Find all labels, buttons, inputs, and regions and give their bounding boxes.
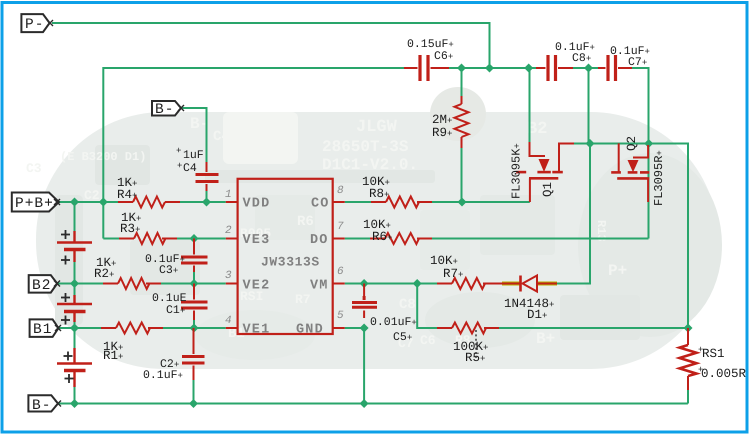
- wire B- bottom rail: [58, 403, 688, 405]
- svg-text:R9+: R9+: [432, 126, 452, 140]
- svg-text:R6: R6: [297, 214, 314, 230]
- svg-text:Q2: Q2: [625, 136, 639, 151]
- wire VE1 row (B1): [58, 327, 226, 329]
- resistor R4: [118, 197, 180, 208]
- svg-text:3: 3: [225, 270, 232, 282]
- junction C6/R9 node: [457, 64, 466, 73]
- svg-text:R8+: R8+: [369, 187, 389, 201]
- svg-text:VDD: VDD: [243, 197, 271, 212]
- wire CO row: [345, 201, 530, 203]
- wire VM row: [345, 283, 437, 285]
- wire DO riser: [648, 144, 650, 239]
- pin 6 VM: [333, 283, 345, 285]
- wire C1 to VE1 row: [193, 320, 195, 328]
- wire C8 to C7 row: [572, 67, 600, 69]
- wire Q1-Q2 rail: [561, 143, 649, 145]
- junction VM/C5 node: [360, 279, 369, 288]
- flag B- (bottom): [28, 395, 61, 414]
- svg-text:1uF: 1uF: [183, 149, 204, 162]
- svg-text:C6: C6: [420, 333, 436, 348]
- resistor R3: [119, 233, 177, 244]
- junction C3 top: [190, 234, 199, 243]
- svg-text:C5+: C5+: [393, 331, 412, 344]
- resistor R5: [437, 323, 499, 334]
- svg-text:C2: C2: [84, 188, 100, 203]
- pin 5 GND: [333, 327, 345, 329]
- transistor Q2 FL3095R: [611, 136, 666, 206]
- svg-text:R6+: R6+: [372, 230, 392, 244]
- wire RS1 bottom to rail: [687, 390, 689, 404]
- capacitor C3: [181, 239, 208, 273]
- resistor RS1 (vertical shunt): [680, 328, 697, 390]
- wire rail to RS1 column: [649, 144, 688, 329]
- svg-text:8: 8: [337, 185, 344, 197]
- capacitor C6: [404, 55, 449, 81]
- svg-text:VE1: VE1: [243, 323, 271, 338]
- svg-text:B-: B-: [155, 102, 174, 118]
- svg-text:R3+: R3+: [120, 222, 140, 236]
- svg-text:R7+: R7+: [443, 267, 463, 281]
- wire top cap row left: [103, 68, 404, 239]
- svg-text:R5+: R5+: [465, 351, 485, 365]
- wire R9 column: [461, 68, 463, 202]
- wire C8 node riser: [588, 68, 590, 144]
- svg-text:B+: B+: [536, 330, 555, 348]
- wire C3 to VE2 row: [193, 272, 195, 284]
- svg-text:0.1uF+: 0.1uF+: [143, 369, 183, 382]
- wire VE2 row (B2): [57, 283, 226, 285]
- junction battery B1: [70, 324, 79, 333]
- svg-text:2: 2: [225, 225, 232, 237]
- flag B1: [30, 319, 61, 338]
- svg-text:P+: P+: [608, 262, 627, 280]
- svg-text:C6+: C6+: [434, 50, 453, 63]
- pin 7 DO: [333, 238, 345, 240]
- diode D1 1N4148: [497, 276, 557, 323]
- svg-text:C8: C8: [399, 297, 416, 313]
- junction rail Q1: [586, 139, 595, 148]
- wire R5 to RS1: [499, 327, 688, 329]
- wire D1 to Q1 drain: [553, 283, 590, 285]
- svg-text:VM: VM: [310, 279, 329, 294]
- svg-text:R4+: R4+: [117, 188, 137, 202]
- wire P- net top: [52, 23, 490, 68]
- svg-text:10K+: 10K+: [430, 254, 458, 268]
- svg-text:C4: C4: [213, 129, 230, 145]
- capacitor C5: [352, 284, 377, 319]
- wire GND down to B- rail: [363, 328, 365, 404]
- battery cell BT1 (top): [57, 230, 92, 265]
- wire VDD row (P+B+): [59, 201, 226, 203]
- junction P- node: [485, 64, 494, 73]
- junction battery B-: [70, 399, 79, 408]
- resistor R2: [103, 278, 161, 289]
- resistor R8: [371, 197, 432, 208]
- junction C4 bottom: [202, 198, 211, 207]
- svg-text:2M+: 2M+: [432, 113, 452, 127]
- svg-text:B1: B1: [33, 322, 52, 338]
- svg-text:+: +: [698, 365, 703, 375]
- wire VM to R5 branch: [417, 284, 437, 329]
- svg-text:R2+: R2+: [94, 267, 114, 281]
- svg-text:R7: R7: [295, 292, 311, 307]
- junction C8 right node: [584, 64, 593, 73]
- pin 2 VE3: [226, 238, 238, 240]
- svg-text:C4: C4: [183, 162, 197, 175]
- svg-text:C3: C3: [26, 161, 42, 176]
- wire C2 to B- rail: [193, 380, 195, 404]
- flag P+B+: [12, 193, 60, 213]
- svg-text:B2: B2: [32, 278, 51, 294]
- wire C6 to C8 row: [449, 67, 540, 69]
- flag B2: [29, 275, 60, 294]
- svg-text:P+B+: P+B+: [15, 196, 54, 212]
- wire Q1 drain down to D1: [553, 144, 590, 284]
- svg-text:C5: C5: [243, 129, 260, 145]
- transistor Q1 FL3095K: [510, 142, 575, 202]
- battery cell BT3 (bottom): [57, 348, 92, 387]
- junction Q1 gate node: [524, 64, 533, 73]
- wire DO row: [345, 238, 649, 240]
- flag B- (top): [152, 101, 184, 118]
- svg-text:C1+: C1+: [166, 304, 185, 317]
- wire B- top flag to C4: [182, 108, 207, 162]
- wire C4 to VDD row: [206, 191, 208, 202]
- pin 8 CO: [333, 201, 345, 203]
- svg-text:P-: P-: [25, 17, 44, 33]
- capacitor C2: [182, 328, 205, 380]
- resistor R9 (vertical): [455, 96, 469, 148]
- svg-text:C3+: C3+: [159, 264, 178, 277]
- svg-text:VE3: VE3: [243, 233, 271, 248]
- junction vdd col2: [99, 198, 108, 207]
- junction C3/C1 node: [190, 279, 199, 288]
- capacitor C8: [536, 55, 573, 81]
- svg-text:RS1: RS1: [702, 347, 725, 361]
- wire VE3 row: [103, 238, 226, 240]
- svg-text:+: +: [176, 146, 181, 156]
- wire GND stub to node: [345, 327, 364, 329]
- svg-text:R1+: R1+: [103, 349, 123, 363]
- svg-text:6: 6: [337, 266, 344, 278]
- pin 3 VE2: [226, 283, 238, 285]
- junction RS1 top: [684, 324, 693, 333]
- junction battery top: [70, 198, 79, 207]
- svg-text:0.01uF+: 0.01uF+: [370, 316, 417, 329]
- svg-text:28650T-3S: 28650T-3S: [322, 138, 409, 156]
- svg-text:Q1: Q1: [541, 182, 555, 197]
- resistor R1: [101, 323, 163, 334]
- junction rail Q2: [644, 139, 653, 148]
- svg-text:D1C1-V2.0.: D1C1-V2.0.: [322, 156, 418, 174]
- wire C7 right corner down: [632, 68, 649, 144]
- pin 1 VDD: [226, 201, 238, 203]
- svg-text:JLGW: JLGW: [356, 118, 398, 137]
- pin 4 VE1: [226, 327, 238, 329]
- capacitor C7: [598, 55, 632, 81]
- junction VM/R5 node: [413, 279, 422, 288]
- svg-text:D1+: D1+: [527, 308, 547, 322]
- svg-text:7: 7: [337, 221, 344, 233]
- flag P-: [21, 14, 53, 33]
- wire Q1 gate riser: [529, 68, 531, 143]
- junction C2 bottom: [189, 399, 198, 408]
- junction R9 bottom CO: [458, 198, 467, 207]
- svg-text:4: 4: [225, 315, 232, 327]
- junction GND rail: [360, 399, 369, 408]
- svg-text:VE2: VE2: [243, 279, 271, 294]
- svg-text:1: 1: [225, 189, 232, 201]
- capacitor C4: [196, 162, 219, 191]
- svg-text:JW3313S: JW3313S: [261, 255, 320, 270]
- svg-text:B-: B-: [32, 398, 51, 414]
- resistor R6: [370, 233, 432, 244]
- svg-text:FL3095R+: FL3095R+: [652, 150, 666, 206]
- svg-text:FL3095K+: FL3095K+: [510, 143, 524, 199]
- svg-text:+: +: [177, 161, 182, 171]
- wire battery column: [74, 202, 76, 404]
- svg-text:C7+: C7+: [628, 56, 647, 69]
- junction GND node: [360, 324, 369, 333]
- svg-text:CO: CO: [311, 197, 330, 212]
- junction C1/C2 node: [190, 324, 199, 333]
- svg-text:DO: DO: [310, 233, 329, 248]
- svg-text:+: +: [698, 345, 703, 355]
- svg-text:GND: GND: [296, 323, 324, 338]
- svg-text:C8+: C8+: [572, 52, 591, 65]
- junction battery B2: [70, 279, 79, 288]
- battery cell BT2 (middle): [57, 293, 92, 325]
- svg-text:0.005R: 0.005R: [701, 367, 747, 381]
- resistor R7: [437, 278, 497, 289]
- capacitor C1: [181, 284, 208, 321]
- op-amp U1 JW3313S (IC box): [225, 179, 345, 338]
- svg-text:5: 5: [337, 310, 344, 322]
